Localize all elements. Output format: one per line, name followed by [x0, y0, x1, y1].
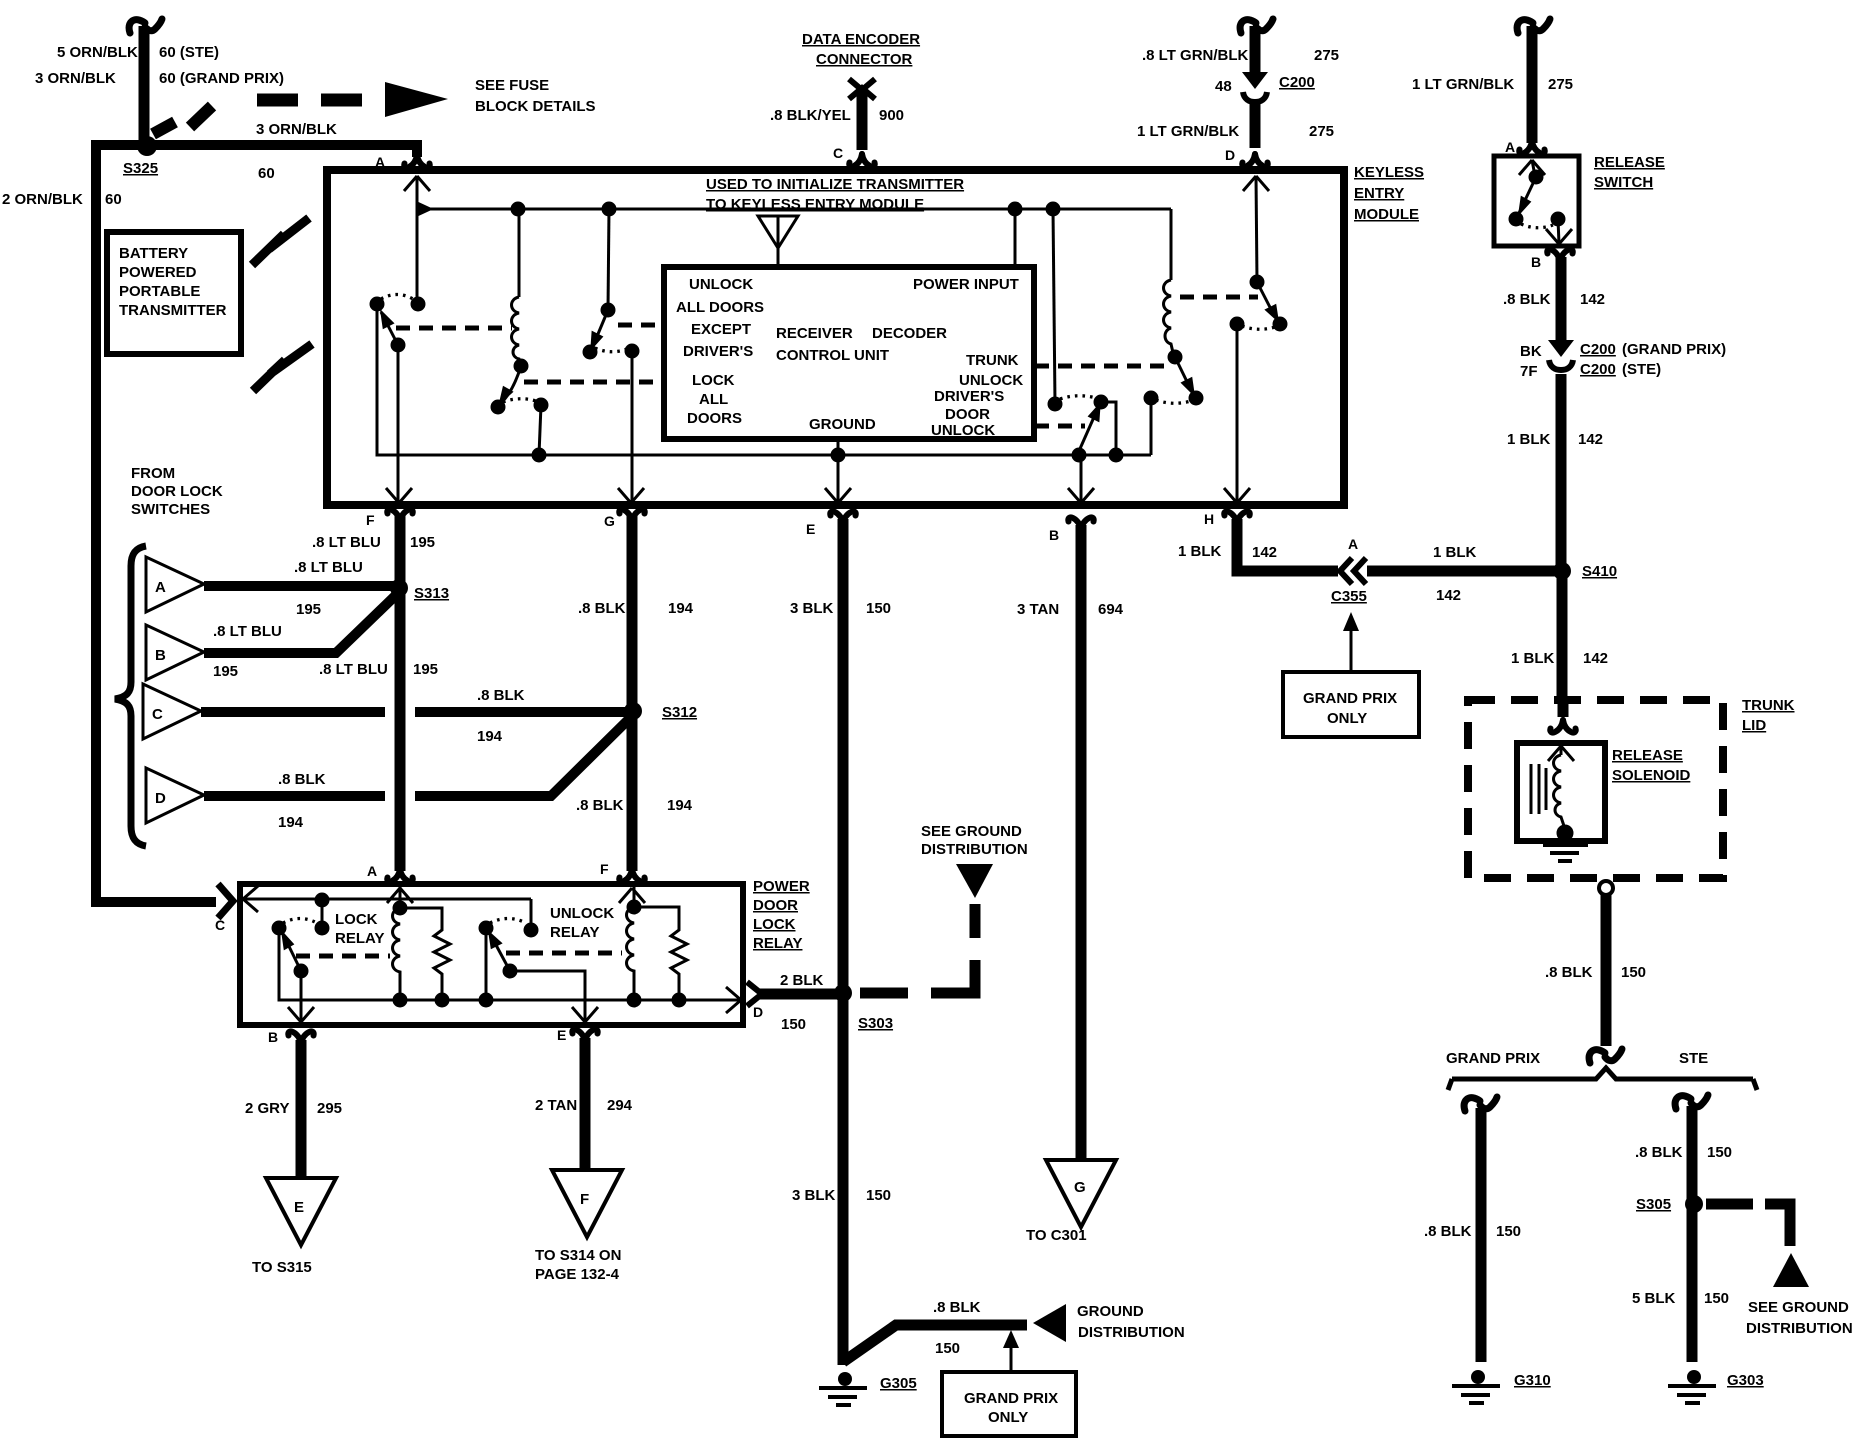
svg-text:F: F [600, 861, 609, 877]
svg-text:D: D [753, 1004, 763, 1020]
svg-text:142: 142 [1580, 291, 1605, 308]
svg-text:C: C [152, 706, 163, 723]
svg-text:F: F [366, 512, 375, 528]
svg-text:A: A [1505, 139, 1515, 155]
svg-text:DATA ENCODER: DATA ENCODER [802, 31, 920, 48]
svg-text:194: 194 [668, 600, 694, 617]
svg-text:150: 150 [1621, 964, 1646, 981]
svg-text:E: E [294, 1199, 304, 1216]
svg-text:3 BLK: 3 BLK [790, 600, 834, 617]
svg-text:3 BLK: 3 BLK [792, 1187, 836, 1204]
svg-text:150: 150 [866, 1187, 891, 1204]
svg-text:E: E [806, 521, 815, 537]
svg-text:DISTRIBUTION: DISTRIBUTION [921, 841, 1028, 858]
svg-text:DOOR: DOOR [945, 406, 990, 423]
svg-text:.8 LT BLU: .8 LT BLU [294, 559, 363, 576]
svg-text:.8 BLK: .8 BLK [578, 600, 626, 617]
svg-text:DISTRIBUTION: DISTRIBUTION [1078, 1324, 1185, 1341]
svg-text:142: 142 [1583, 650, 1608, 667]
svg-text:.8 BLK: .8 BLK [1545, 964, 1593, 981]
svg-text:60 (GRAND PRIX): 60 (GRAND PRIX) [159, 70, 284, 87]
svg-text:RELEASE: RELEASE [1594, 154, 1665, 171]
svg-text:G: G [604, 513, 615, 529]
svg-text:.8 LT BLU: .8 LT BLU [213, 623, 282, 640]
svg-text:BLOCK DETAILS: BLOCK DETAILS [475, 98, 596, 115]
svg-text:TRANSMITTER: TRANSMITTER [119, 302, 227, 319]
svg-text:LOCK: LOCK [753, 916, 796, 933]
svg-text:C355: C355 [1331, 588, 1367, 605]
svg-text:DOORS: DOORS [687, 410, 742, 427]
svg-text:B: B [268, 1029, 278, 1045]
svg-text:195: 195 [413, 661, 438, 678]
svg-text:DRIVER'S: DRIVER'S [683, 343, 753, 360]
svg-text:CONTROL UNIT: CONTROL UNIT [776, 347, 889, 364]
svg-text:1 LT GRN/BLK: 1 LT GRN/BLK [1412, 76, 1514, 93]
svg-text:S325: S325 [123, 160, 158, 177]
svg-text:C200: C200 [1580, 361, 1616, 378]
svg-text:2 ORN/BLK: 2 ORN/BLK [2, 191, 83, 208]
svg-text:C200: C200 [1580, 341, 1616, 358]
svg-text:60: 60 [105, 191, 122, 208]
svg-text:275: 275 [1309, 123, 1334, 140]
svg-text:POWERED: POWERED [119, 264, 197, 281]
svg-text:UNLOCK: UNLOCK [959, 372, 1023, 389]
svg-text:GROUND: GROUND [1077, 1303, 1144, 1320]
svg-text:48: 48 [1215, 78, 1232, 95]
svg-text:5 BLK: 5 BLK [1632, 1290, 1676, 1307]
svg-text:RECEIVER: RECEIVER [776, 325, 853, 342]
svg-text:694: 694 [1098, 601, 1124, 618]
svg-text:1 BLK: 1 BLK [1511, 650, 1555, 667]
svg-text:(GRAND PRIX): (GRAND PRIX) [1622, 341, 1726, 358]
svg-text:150: 150 [866, 600, 891, 617]
svg-text:MODULE: MODULE [1354, 206, 1419, 223]
svg-text:A: A [155, 579, 166, 596]
svg-text:2 GRY: 2 GRY [245, 1100, 289, 1117]
svg-text:FROM: FROM [131, 465, 175, 482]
svg-text:DECODER: DECODER [872, 325, 947, 342]
svg-text:RELAY: RELAY [753, 935, 802, 952]
svg-text:.8 BLK: .8 BLK [1635, 1144, 1683, 1161]
svg-text:KEYLESS: KEYLESS [1354, 164, 1424, 181]
svg-text:RELAY: RELAY [550, 924, 599, 941]
svg-text:142: 142 [1252, 544, 1277, 561]
svg-text:UNLOCK: UNLOCK [931, 422, 995, 439]
svg-text:S312: S312 [662, 704, 697, 721]
svg-text:B: B [155, 647, 166, 664]
svg-text:SEE GROUND: SEE GROUND [921, 823, 1022, 840]
svg-text:CONNECTOR: CONNECTOR [816, 51, 913, 68]
svg-text:ALL: ALL [699, 391, 728, 408]
svg-text:S305: S305 [1636, 1196, 1671, 1213]
svg-text:C200: C200 [1279, 74, 1315, 91]
svg-text:1 BLK: 1 BLK [1433, 544, 1477, 561]
svg-text:275: 275 [1314, 47, 1339, 64]
svg-text:.8 BLK/YEL: .8 BLK/YEL [770, 107, 851, 124]
svg-text:150: 150 [1704, 1290, 1729, 1307]
svg-text:.8 BLK: .8 BLK [1503, 291, 1551, 308]
svg-text:(STE): (STE) [1622, 361, 1661, 378]
svg-text:60: 60 [258, 165, 275, 182]
svg-text:SWITCH: SWITCH [1594, 174, 1653, 191]
svg-text:C: C [215, 917, 225, 933]
svg-text:DOOR: DOOR [753, 897, 798, 914]
svg-text:D: D [155, 790, 166, 807]
svg-text:A: A [367, 863, 377, 879]
svg-text:F: F [580, 1191, 589, 1208]
svg-text:UNLOCK: UNLOCK [689, 276, 753, 293]
svg-text:S313: S313 [414, 585, 449, 602]
svg-text:STE: STE [1679, 1050, 1708, 1067]
svg-text:POWER INPUT: POWER INPUT [913, 276, 1019, 293]
svg-text:150: 150 [935, 1340, 960, 1357]
svg-text:900: 900 [879, 107, 904, 124]
svg-text:194: 194 [667, 797, 693, 814]
svg-text:195: 195 [296, 601, 321, 618]
svg-text:.8 BLK: .8 BLK [576, 797, 624, 814]
svg-text:BATTERY: BATTERY [119, 245, 188, 262]
svg-text:DISTRIBUTION: DISTRIBUTION [1746, 1320, 1852, 1337]
svg-text:195: 195 [410, 534, 435, 551]
svg-text:TO S314 ON: TO S314 ON [535, 1247, 621, 1264]
svg-text:C: C [833, 145, 843, 161]
svg-text:G310: G310 [1514, 1372, 1551, 1389]
svg-text:DRIVER'S: DRIVER'S [934, 388, 1004, 405]
svg-text:150: 150 [1707, 1144, 1732, 1161]
svg-text:ONLY: ONLY [1327, 710, 1367, 727]
svg-text:EXCEPT: EXCEPT [691, 321, 751, 338]
svg-text:UNLOCK: UNLOCK [550, 905, 614, 922]
svg-text:1 BLK: 1 BLK [1178, 543, 1222, 560]
svg-text:SEE FUSE: SEE FUSE [475, 77, 549, 94]
svg-text:3 ORN/BLK: 3 ORN/BLK [35, 70, 116, 87]
svg-text:194: 194 [477, 728, 503, 745]
svg-text:GRAND PRIX: GRAND PRIX [964, 1390, 1058, 1407]
svg-text:B: B [1049, 527, 1059, 543]
svg-text:ONLY: ONLY [988, 1409, 1028, 1426]
svg-text:H: H [1204, 511, 1214, 527]
svg-text:RELAY: RELAY [335, 930, 384, 947]
svg-text:150: 150 [781, 1016, 806, 1033]
svg-text:.8 BLK: .8 BLK [477, 687, 525, 704]
svg-text:194: 194 [278, 814, 304, 831]
svg-text:SEE GROUND: SEE GROUND [1748, 1299, 1849, 1316]
svg-text:60 (STE): 60 (STE) [159, 44, 219, 61]
svg-text:GROUND: GROUND [809, 416, 876, 433]
svg-text:275: 275 [1548, 76, 1573, 93]
svg-text:POWER: POWER [753, 878, 810, 895]
svg-text:TRUNK: TRUNK [1742, 697, 1795, 714]
svg-text:G: G [1074, 1179, 1086, 1196]
svg-text:.8 LT BLU: .8 LT BLU [319, 661, 388, 678]
svg-text:5 ORN/BLK: 5 ORN/BLK [57, 44, 138, 61]
svg-text:LOCK: LOCK [692, 372, 735, 389]
svg-text:GRAND PRIX: GRAND PRIX [1303, 690, 1397, 707]
svg-text:ENTRY: ENTRY [1354, 185, 1404, 202]
svg-text:USED TO INITIALIZE TRANSMITTER: USED TO INITIALIZE TRANSMITTER [706, 176, 964, 193]
svg-text:G303: G303 [1727, 1372, 1764, 1389]
svg-text:295: 295 [317, 1100, 342, 1117]
svg-text:ALL DOORS: ALL DOORS [676, 299, 764, 316]
svg-text:1 BLK: 1 BLK [1507, 431, 1551, 448]
svg-text:3 TAN: 3 TAN [1017, 601, 1059, 618]
svg-text:G305: G305 [880, 1375, 917, 1392]
svg-text:B: B [1531, 254, 1541, 270]
svg-text:PORTABLE: PORTABLE [119, 283, 200, 300]
svg-text:A: A [1348, 536, 1358, 552]
svg-text:GRAND PRIX: GRAND PRIX [1446, 1050, 1540, 1067]
svg-text:3 ORN/BLK: 3 ORN/BLK [256, 121, 337, 138]
svg-text:2 BLK: 2 BLK [780, 972, 824, 989]
svg-text:RELEASE: RELEASE [1612, 747, 1683, 764]
svg-text:.8 BLK: .8 BLK [278, 771, 326, 788]
svg-text:DOOR LOCK: DOOR LOCK [131, 483, 223, 500]
svg-text:7F: 7F [1520, 363, 1538, 380]
svg-text:D: D [1225, 147, 1235, 163]
svg-text:142: 142 [1578, 431, 1603, 448]
svg-text:PAGE 132-4: PAGE 132-4 [535, 1266, 620, 1283]
svg-text:2 TAN: 2 TAN [535, 1097, 577, 1114]
svg-text:LID: LID [1742, 717, 1766, 734]
svg-text:1 LT GRN/BLK: 1 LT GRN/BLK [1137, 123, 1239, 140]
svg-text:195: 195 [213, 663, 238, 680]
svg-text:294: 294 [607, 1097, 633, 1114]
svg-text:.8 BLK: .8 BLK [933, 1299, 981, 1316]
svg-text:S303: S303 [858, 1015, 893, 1032]
svg-text:.8 BLK: .8 BLK [1424, 1223, 1472, 1240]
svg-text:SWITCHES: SWITCHES [131, 501, 210, 518]
svg-text:BK: BK [1520, 343, 1542, 360]
svg-text:.8 LT GRN/BLK: .8 LT GRN/BLK [1142, 47, 1249, 64]
svg-text:.8 LT BLU: .8 LT BLU [312, 534, 381, 551]
svg-text:TRUNK: TRUNK [966, 352, 1019, 369]
svg-text:TO C301: TO C301 [1026, 1227, 1087, 1244]
svg-text:E: E [557, 1027, 566, 1043]
svg-text:142: 142 [1436, 587, 1461, 604]
svg-text:SOLENOID: SOLENOID [1612, 767, 1691, 784]
svg-text:LOCK: LOCK [335, 911, 378, 928]
svg-text:S410: S410 [1582, 563, 1617, 580]
svg-text:TO S315: TO S315 [252, 1259, 312, 1276]
svg-text:150: 150 [1496, 1223, 1521, 1240]
